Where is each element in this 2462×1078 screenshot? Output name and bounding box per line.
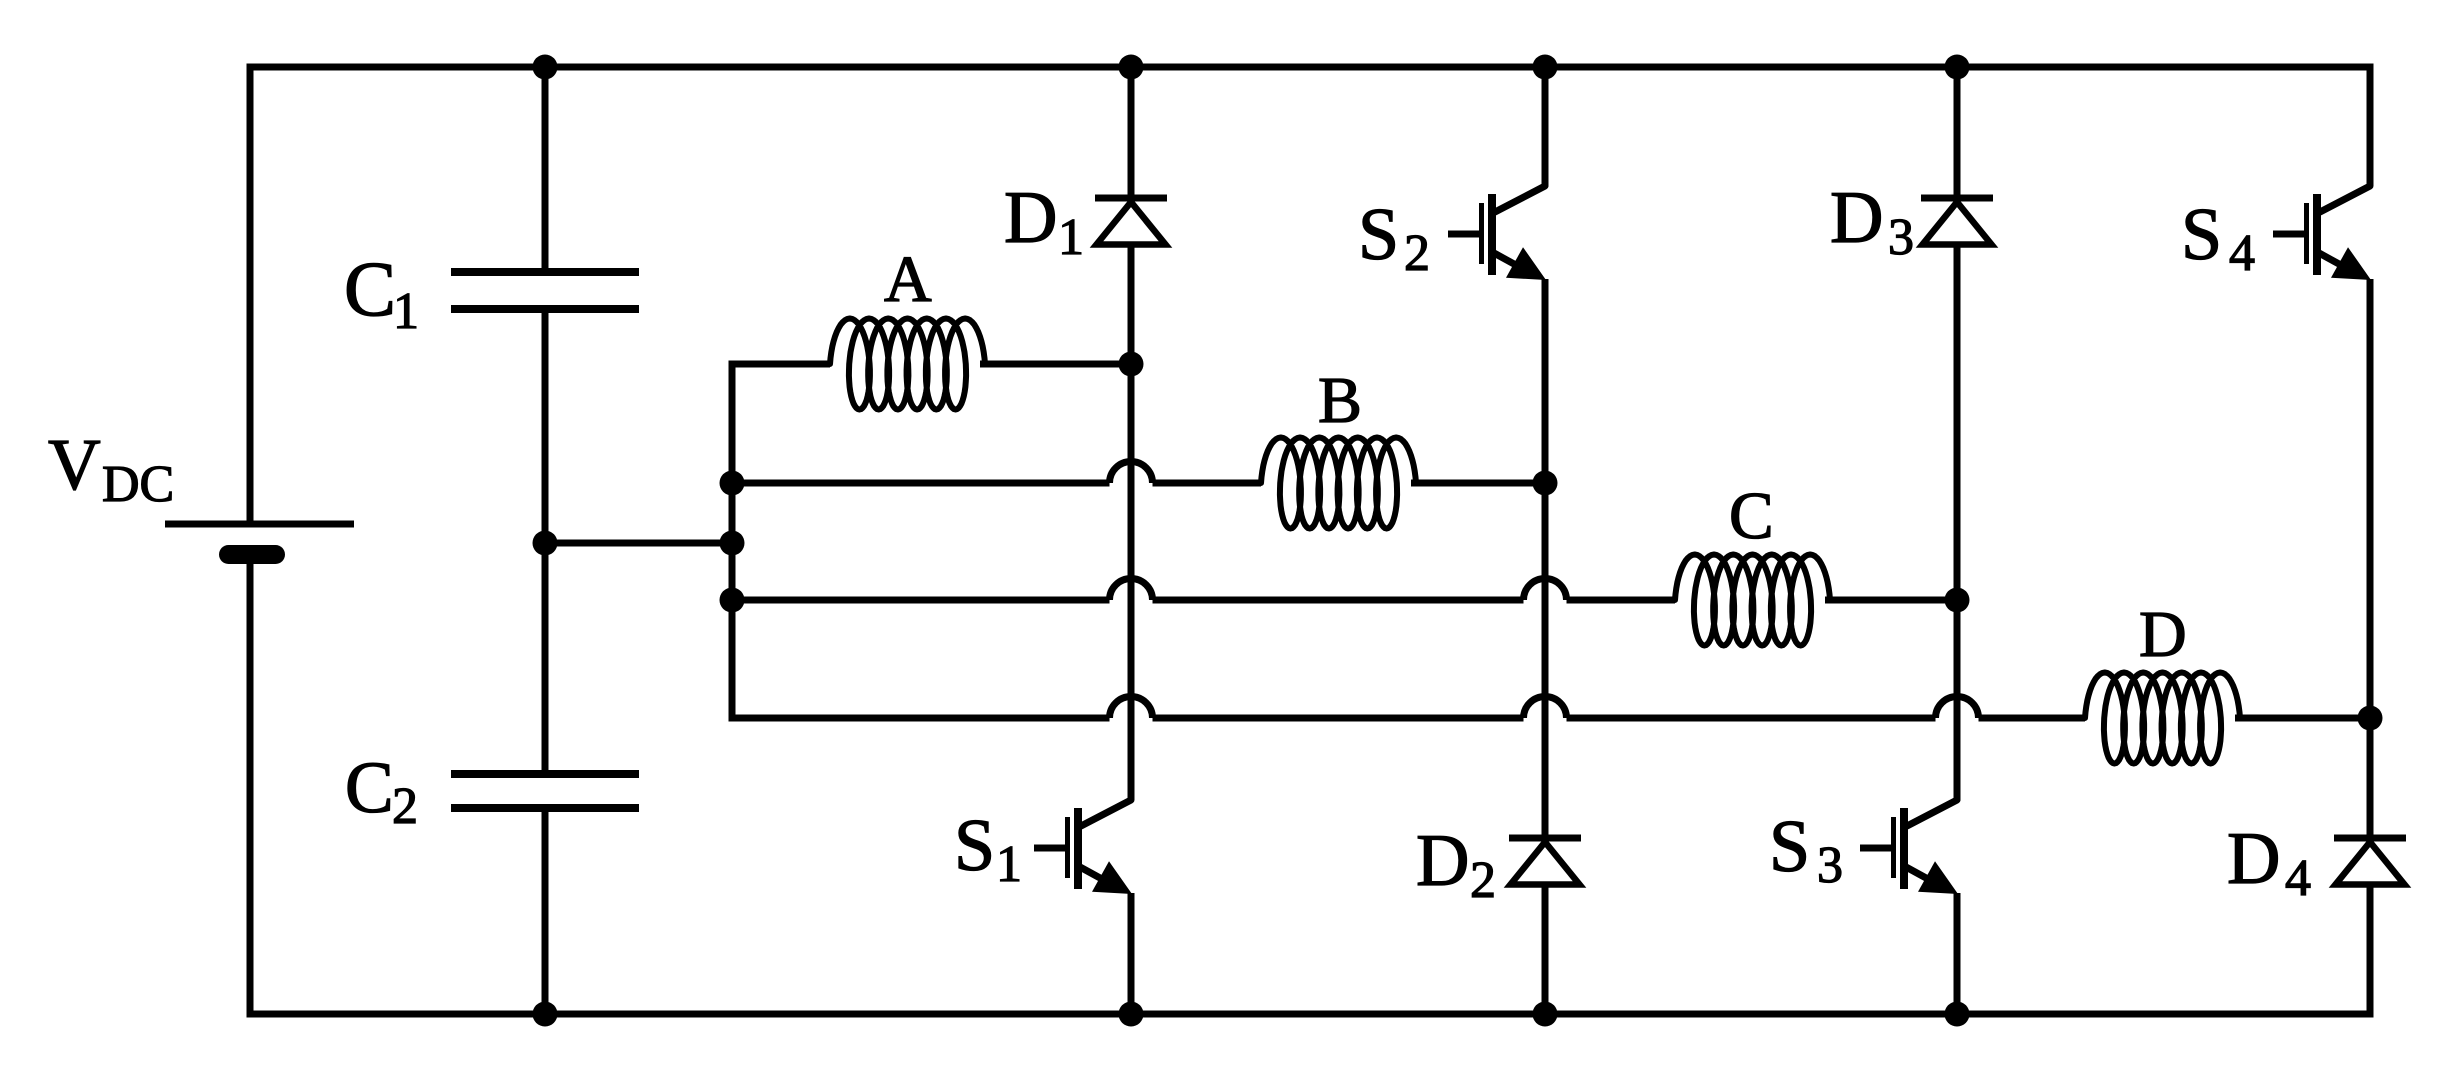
node phase C at leg3 [1945, 588, 1970, 613]
svg-text:C: C [344, 245, 396, 332]
svg-text:B: B [1318, 364, 1362, 437]
node C1 top on rail [533, 55, 558, 80]
wire phase D to leg4 [2235, 715, 2370, 722]
svg-text:1: 1 [996, 836, 1022, 893]
diode D4 [2334, 835, 2406, 842]
inductor B [1261, 438, 1416, 529]
wire leg4 rail corner to S4 [2367, 64, 2374, 187]
wire bottom rail [247, 1011, 2371, 1018]
inductor D [2085, 673, 2240, 764]
wire left branch lower (battery negative lead) [247, 562, 254, 1014]
capacitor C2 [451, 770, 639, 778]
wire S4 to phase D node [2367, 279, 2374, 718]
node phase B at leg2 [1533, 471, 1558, 496]
wire leg1 phase A node to S1 [1128, 364, 1135, 800]
svg-text:C: C [1729, 479, 1774, 553]
transistor S2 [1495, 186, 1545, 212]
svg-text:DC: DC [102, 456, 174, 513]
wire S2 to phase B node [1542, 279, 1549, 483]
wire D4 to bottom rail [2367, 885, 2374, 1018]
node C2 bottom on rail [533, 1002, 558, 1027]
transistor S3 [1907, 800, 1957, 826]
node capacitor midpoint [533, 531, 558, 556]
svg-text:S: S [2181, 194, 2222, 276]
wire leg2 phase B node to D2 [1542, 483, 1549, 838]
node bus C-line [720, 588, 745, 613]
svg-text:S: S [954, 805, 995, 887]
wire D1 to phase A node [1128, 245, 1135, 365]
svg-text:A: A [884, 243, 932, 316]
wire C2 bottom lead [542, 808, 549, 1014]
node leg1 top rail [1119, 55, 1144, 80]
wire leg3 rail to D3 [1954, 67, 1961, 198]
svg-text:1: 1 [393, 283, 419, 340]
wire D2 to bottom rail [1542, 885, 1549, 1015]
wire phase D line [729, 715, 1110, 722]
wire leg3 phase C node to S3 [1954, 600, 1961, 800]
svg-text:1: 1 [1058, 209, 1084, 266]
wire C1 bottom lead [542, 309, 549, 543]
svg-text:4: 4 [2229, 225, 2255, 282]
inductor C [1675, 555, 1830, 646]
svg-text:4: 4 [2285, 850, 2311, 907]
transistor S1 [1081, 800, 1131, 826]
wire neutral bus vertical [732, 364, 830, 718]
svg-text:2: 2 [1404, 225, 1430, 282]
svg-text:2: 2 [1470, 852, 1496, 909]
svg-text:D: D [1830, 177, 1883, 259]
diode D1 [1095, 195, 1167, 202]
svg-text:C: C [345, 747, 394, 828]
wire phase B line [732, 480, 1110, 487]
wire S3 to bottom rail [1954, 893, 1961, 1014]
node bus midpoint wire [720, 531, 745, 556]
transistor S4 [2320, 186, 2370, 212]
wire S1 to bottom rail [1128, 893, 1135, 1014]
diode D2 [1509, 835, 1581, 842]
wire leg4 phase D node to D4 [2367, 718, 2374, 838]
battery VDC negative plate [219, 545, 285, 564]
node leg2 bottom rail [1533, 1002, 1558, 1027]
wire C2 top lead [542, 543, 549, 774]
svg-text:S: S [1358, 194, 1399, 276]
node bus B-line [720, 471, 745, 496]
svg-text:3: 3 [1817, 837, 1843, 894]
svg-text:3: 3 [1888, 209, 1914, 266]
wire D3 to phase C node [1954, 245, 1961, 601]
node leg3 bottom rail [1945, 1002, 1970, 1027]
wire leg1 rail to D1 [1128, 67, 1135, 198]
node phase A at leg1 [1119, 352, 1144, 377]
svg-text:S: S [1769, 806, 1810, 888]
node leg2 top rail [1533, 55, 1558, 80]
battery VDC positive plate [165, 521, 354, 528]
node phase D at leg4 [2358, 706, 2383, 731]
wire phase C line [732, 597, 1110, 604]
node leg1 bottom rail [1119, 1002, 1144, 1027]
wire C1 top lead [542, 67, 549, 272]
diode D3 [1921, 195, 1993, 202]
svg-text:D: D [2227, 818, 2280, 900]
wire phase B to leg2 [1411, 480, 1545, 487]
wire left branch upper (battery positive lead) [247, 67, 254, 524]
svg-text:D: D [1004, 177, 1057, 259]
wire top rail [247, 64, 2371, 71]
svg-text:V: V [48, 424, 101, 505]
wire leg2 rail to S2 [1542, 67, 1549, 186]
svg-text:D: D [2139, 598, 2187, 671]
wire cap midpoint to bus [545, 540, 732, 547]
svg-text:2: 2 [392, 778, 418, 835]
wire phase A to leg1 [980, 361, 1131, 368]
capacitor C1 [451, 268, 639, 276]
wire phase C to leg3 [1825, 597, 1957, 604]
node leg3 top rail [1945, 55, 1970, 80]
inductor A [830, 319, 985, 410]
svg-text:D: D [1416, 820, 1469, 902]
